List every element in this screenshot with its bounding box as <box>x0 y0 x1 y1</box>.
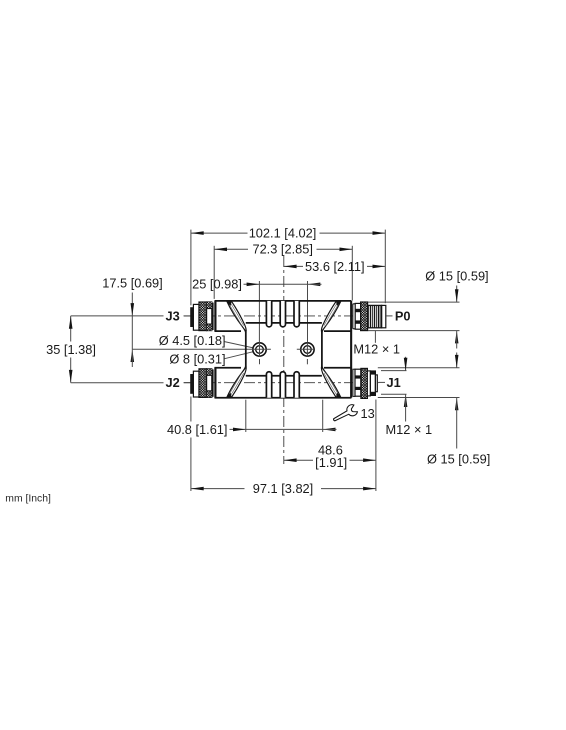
dimension 48.6 [1.91] bottom <box>284 400 376 492</box>
label J1 with leader <box>379 375 401 390</box>
body right edge bar <box>350 301 352 398</box>
mounting hole left <box>249 342 271 364</box>
bottom-left block top edge <box>215 367 242 369</box>
connector P0 (male, right top) <box>353 302 386 331</box>
bottom web edge line <box>246 375 322 377</box>
connector J2 (female, left bottom) <box>190 369 213 398</box>
top-right block bottom edge <box>324 330 351 332</box>
gusset blade bottom-left <box>227 365 247 398</box>
svg-text:53.6 [2.11]: 53.6 [2.11] <box>305 259 365 274</box>
label J3 with leader <box>71 308 191 323</box>
svg-text:40.8 [1.61]: 40.8 [1.61] <box>167 422 227 437</box>
body bottom edge <box>215 397 352 399</box>
dimension 25 [0.98] <box>192 277 321 343</box>
axis centerline J2-J1 <box>184 382 379 384</box>
body left edge bar top block <box>214 301 216 331</box>
svg-text:13: 13 <box>361 406 375 421</box>
svg-text:35 [1.38]: 35 [1.38] <box>46 342 96 357</box>
svg-text:Ø 8 [0.31]: Ø 8 [0.31] <box>169 352 225 367</box>
gusset blade top-left <box>227 301 247 334</box>
mounting hole right <box>297 342 314 364</box>
body vertical centerline <box>283 256 285 464</box>
gusset blade bottom-right <box>321 365 341 398</box>
top web edge line <box>246 322 322 324</box>
dimension 72.3 [2.85] <box>214 242 352 301</box>
svg-text:25 [0.98]: 25 [0.98] <box>192 277 242 292</box>
svg-text:M12 × 1: M12 × 1 <box>353 342 400 357</box>
svg-text:Ø 15 [0.59]: Ø 15 [0.59] <box>427 451 490 466</box>
svg-text:Ø 15 [0.59]: Ø 15 [0.59] <box>425 269 488 284</box>
svg-text:P0: P0 <box>395 308 411 323</box>
label J2 with leader <box>71 375 191 390</box>
dimension diameter 15 top right <box>368 269 489 349</box>
corrugated ribs top <box>266 301 299 327</box>
label P0 with leader <box>386 308 410 323</box>
wrench size 13 symbol <box>331 403 375 425</box>
svg-text:J1: J1 <box>387 375 401 390</box>
dimension 17.5 [0.69] left <box>102 276 248 367</box>
gusset blade top-right <box>321 301 341 334</box>
dimension diameter 15 bottom right <box>378 353 491 467</box>
connector J1 (female, right bottom) <box>353 368 377 398</box>
bottom-right block top edge <box>324 367 351 369</box>
svg-text:72.3 [2.85]: 72.3 [2.85] <box>252 242 312 257</box>
right waist line <box>321 332 323 367</box>
axis centerline J3-P0 <box>184 315 384 317</box>
svg-text:mm [Inch]: mm [Inch] <box>5 494 51 505</box>
connector J3 (female, left top) <box>190 302 213 331</box>
svg-text:[1.91]: [1.91] <box>315 455 347 470</box>
top-left block bottom edge <box>215 330 242 332</box>
svg-text:J3: J3 <box>166 308 180 323</box>
svg-text:97.1 [3.82]: 97.1 [3.82] <box>253 481 313 496</box>
dimension 40.8 [1.61] bottom <box>167 400 337 437</box>
dimension 53.6 [2.11] <box>284 259 386 274</box>
dimension 97.1 [3.82] bottom <box>191 397 376 497</box>
label diameter 4.5 [0.18] with leader <box>159 333 256 348</box>
label diameter 8 [0.31] with leader <box>169 352 253 367</box>
svg-text:Ø 4.5 [0.18]: Ø 4.5 [0.18] <box>159 333 226 348</box>
body top edge <box>215 300 352 302</box>
left waist line <box>245 332 247 367</box>
svg-text:17.5 [0.69]: 17.5 [0.69] <box>102 276 162 291</box>
label M12 x 1 for P0 with leader <box>353 331 400 357</box>
svg-text:M12 × 1: M12 × 1 <box>386 422 433 437</box>
body left edge bar bottom block <box>214 367 216 397</box>
dimension 35 [1.38] left <box>46 316 96 383</box>
svg-text:J2: J2 <box>166 375 180 390</box>
dimension M12 x 1 for J1 <box>381 357 432 437</box>
dimension 102.1 [4.02] top <box>191 226 385 306</box>
corrugated ribs bottom <box>266 372 299 398</box>
svg-text:102.1 [4.02]: 102.1 [4.02] <box>249 226 317 241</box>
